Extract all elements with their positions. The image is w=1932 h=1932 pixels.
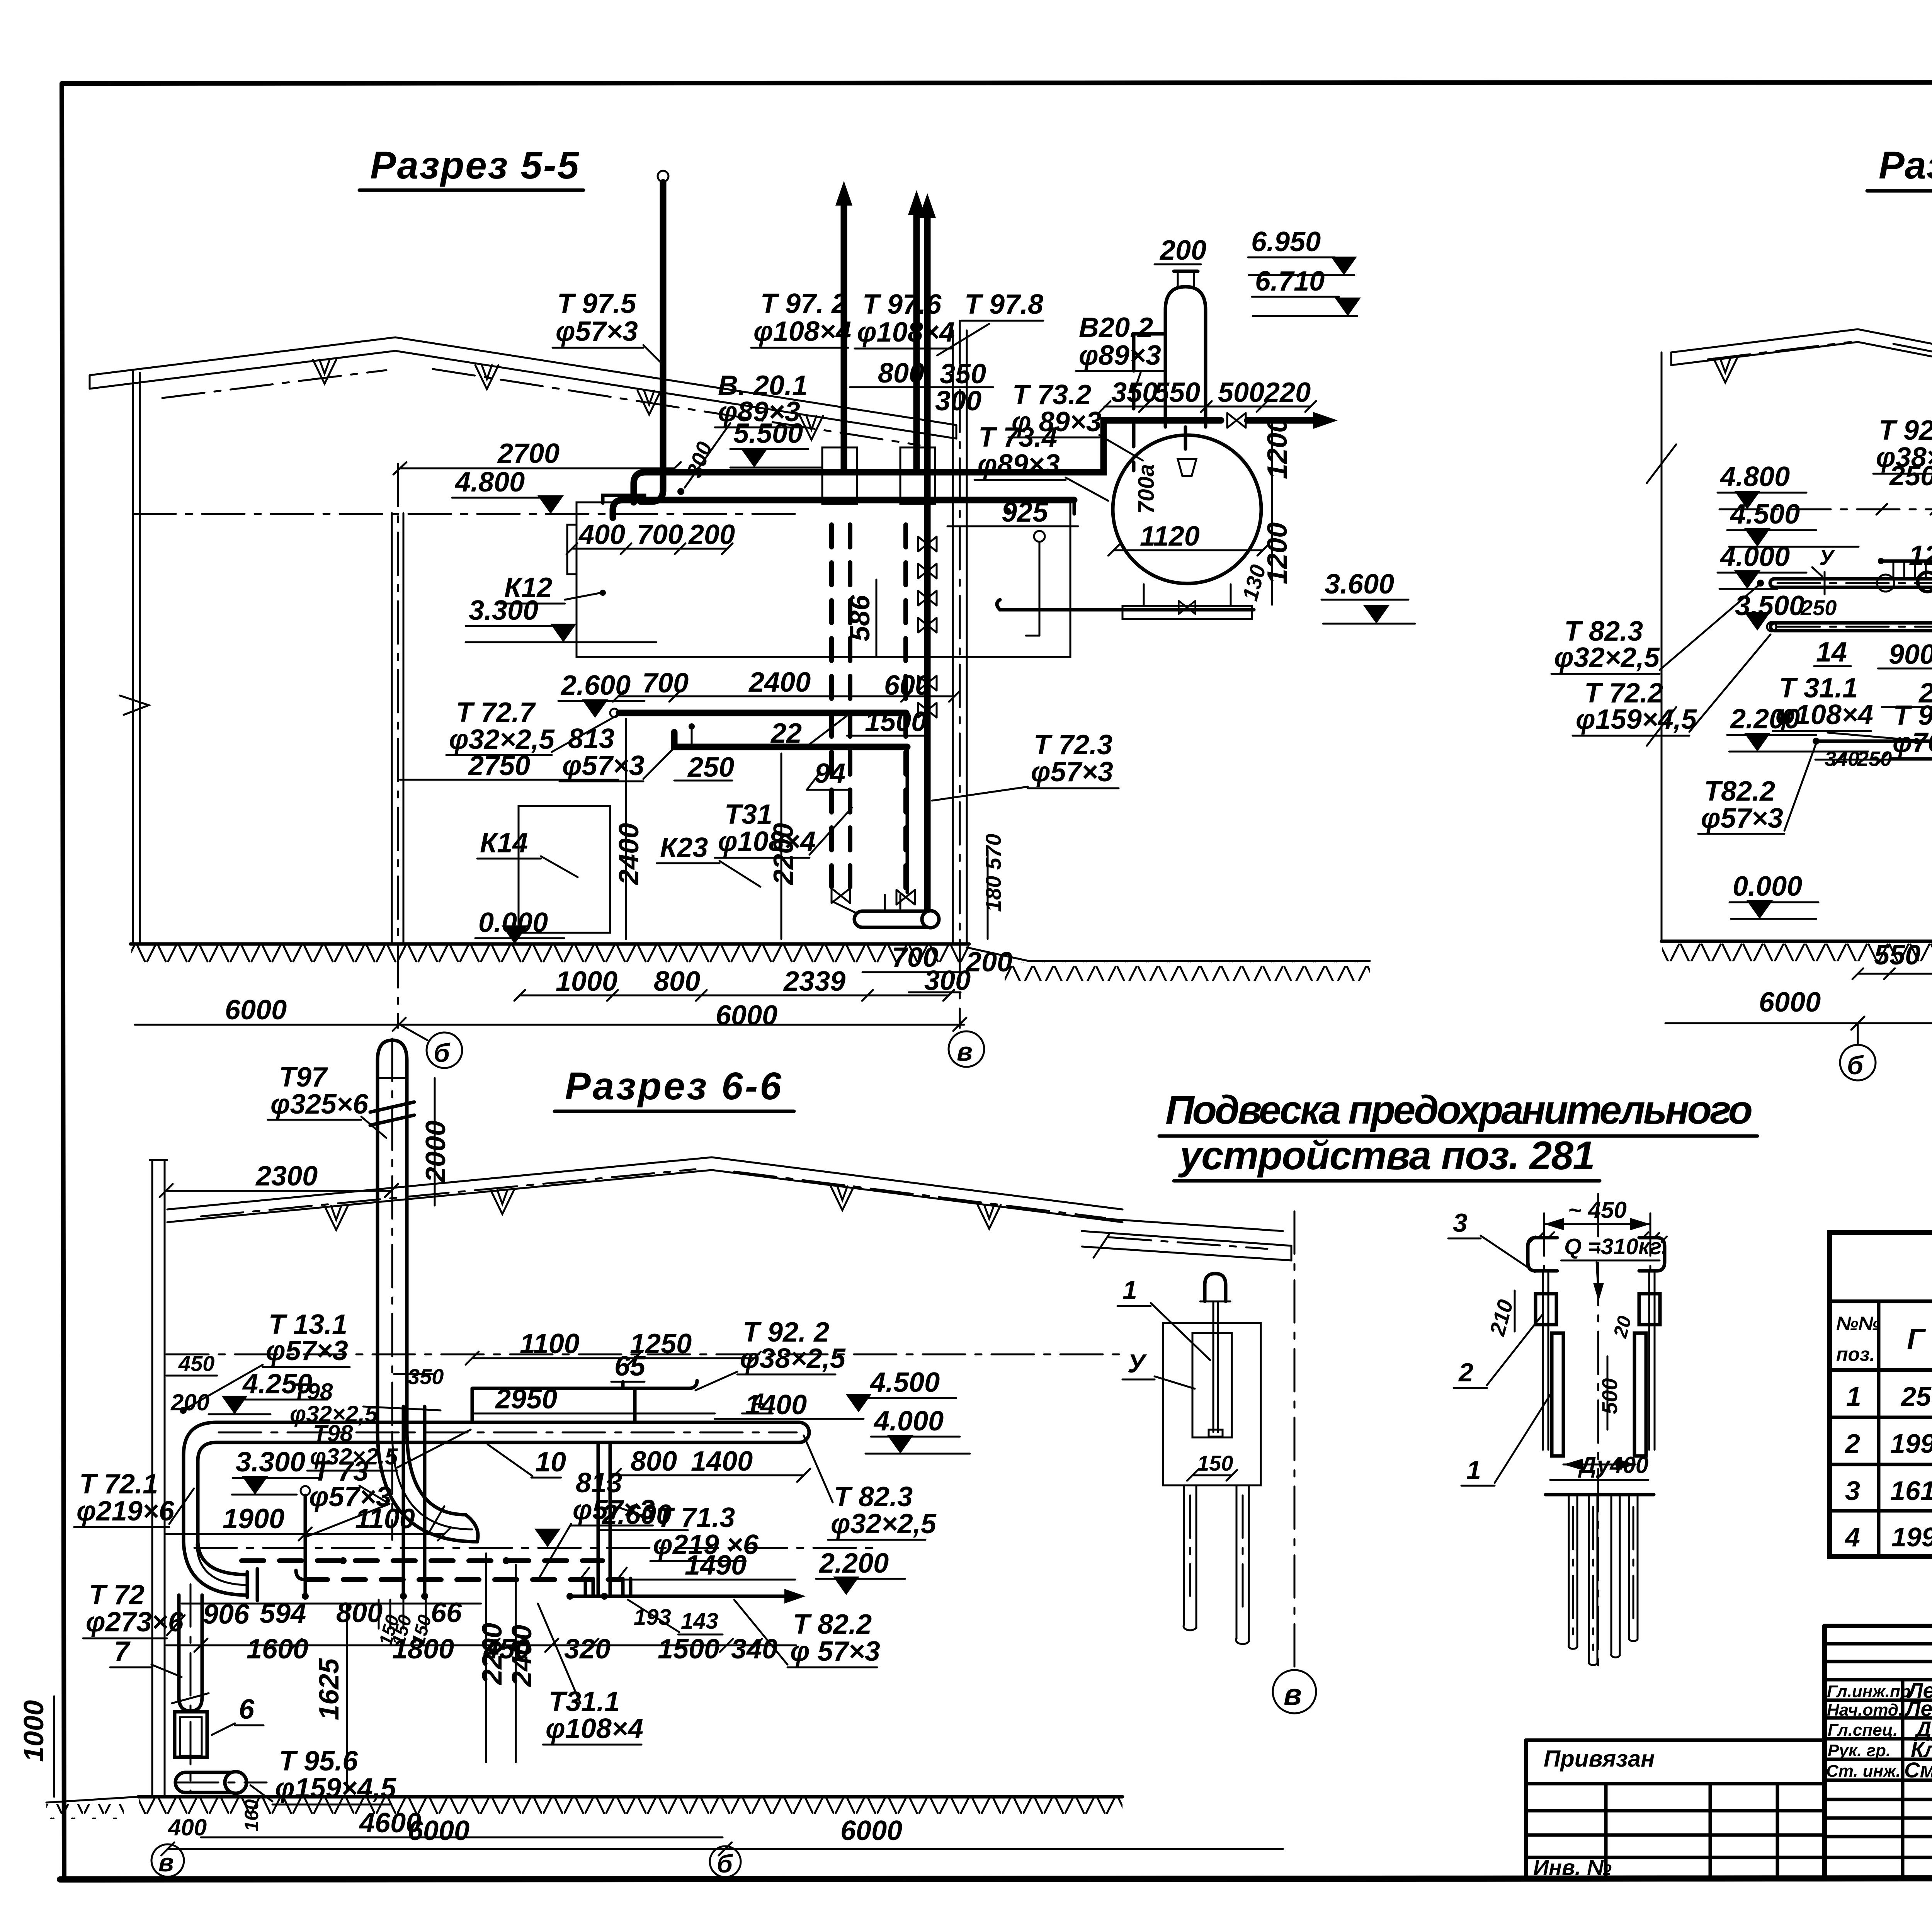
detail title line2 [1174, 1133, 1600, 1181]
svg-text:2339: 2339 [783, 966, 845, 997]
level 6.950 [1248, 226, 1357, 275]
svg-text:1800: 1800 [392, 1634, 454, 1665]
chimney elbow [378, 1430, 478, 1542]
svg-text:Q =310кг.: Q =310кг. [1564, 1234, 1668, 1259]
svg-text:340: 340 [731, 1634, 777, 1665]
svg-text:поз.: поз. [1836, 1344, 1875, 1365]
dims 800 350 300 [850, 358, 993, 417]
dim 2700 [393, 438, 681, 474]
vert dims 2400 2200 [614, 719, 799, 939]
pipe V20.2 [1134, 334, 1165, 471]
svg-text:550: 550 [1874, 940, 1920, 971]
svg-text:3: 3 [1453, 1208, 1468, 1238]
svg-text:300: 300 [935, 386, 981, 417]
level 2.600 s66 [534, 1499, 688, 1547]
level 4.800 [133, 467, 801, 514]
dim 150 detail [1187, 1451, 1237, 1481]
level 4.000 s77 [1718, 541, 1806, 589]
dims near vessel 350 550 500 220 [1100, 377, 1316, 412]
svg-text:Т 73.2: Т 73.2 [1012, 379, 1091, 410]
svg-text:Т 97.8: Т 97.8 [964, 289, 1043, 320]
svg-text:19903-74: 19903-74 [1890, 1429, 1932, 1459]
svg-text:Т98: Т98 [293, 1379, 333, 1405]
dim row 1200 300 10 [1909, 536, 1932, 581]
roof 6-6 [167, 1157, 1122, 1230]
riser T71.3 s66 [598, 1442, 610, 1600]
dim 1500 [847, 706, 929, 737]
svg-text:Т 97.6: Т 97.6 [862, 289, 942, 320]
label T13.1 [180, 1309, 350, 1414]
label T97 [268, 1062, 386, 1138]
svg-text:6.950: 6.950 [1251, 226, 1321, 257]
plates poz1 [1552, 1333, 1646, 1456]
branch V20.1 [677, 423, 730, 495]
vert dim 1625 [314, 1604, 347, 1789]
svg-text:400: 400 [578, 519, 625, 550]
label 10 s66 [488, 1444, 566, 1478]
label 65 s66 [611, 1351, 646, 1388]
svg-text:700а: 700а [1134, 464, 1159, 514]
names [1904, 1678, 1932, 1782]
C bracket right [1639, 1232, 1667, 1271]
label T73 s66 [305, 1456, 391, 1537]
dims row 1600 1800 450 320 1500 340 [166, 1634, 796, 1665]
dim ~450 [1544, 1197, 1650, 1271]
label T97.2 [751, 288, 851, 348]
label 6 [212, 1694, 264, 1735]
center axis right detail [1597, 1194, 1599, 1665]
label T73.4 [975, 422, 1108, 501]
dims 6000 6000 s55 [135, 995, 966, 1031]
label T92.2 s77 [1873, 415, 1932, 560]
dim 2750 [400, 750, 618, 781]
detail axis line [1294, 1211, 1296, 1668]
svg-text:2950: 2950 [495, 1384, 557, 1415]
level 4.000 right s66 [866, 1406, 970, 1454]
svg-text:4.000: 4.000 [1719, 541, 1790, 572]
vert dim 180 570 [981, 834, 1005, 939]
label T31 [715, 799, 852, 858]
svg-text:1200: 1200 [1909, 540, 1932, 571]
axis circle V detail [1273, 1670, 1316, 1713]
level 6.710 [1252, 266, 1361, 316]
svg-text:φ57×3: φ57×3 [556, 316, 638, 347]
svg-text:Гл.спец.: Гл.спец. [1828, 1721, 1898, 1740]
svg-text:4.800: 4.800 [454, 467, 525, 498]
svg-text:У: У [1819, 545, 1835, 570]
level 2.200 s77 [1727, 704, 1868, 752]
svg-text:2400: 2400 [748, 667, 811, 698]
hanger boxes [822, 447, 935, 504]
vert dim 586 [845, 580, 876, 657]
label T72.7 [446, 697, 617, 755]
svg-text:У: У [1128, 1349, 1147, 1378]
svg-text:Подвеска предохранительного: Подвеска предохранительного [1165, 1088, 1753, 1133]
svg-text:700: 700 [637, 519, 683, 550]
svg-text:813: 813 [568, 723, 614, 754]
axis circle V 6-6 [151, 1844, 184, 1877]
dims 400 4600 [168, 1808, 723, 1840]
C bracket left [1528, 1232, 1557, 1271]
svg-text:800: 800 [631, 1446, 677, 1477]
svg-text:б: б [717, 1849, 733, 1878]
dims 6000 6000 s77 [1665, 987, 1932, 1030]
svg-text:Т 97. 2: Т 97. 2 [760, 288, 847, 319]
wall left 6-6 [150, 1160, 167, 1797]
pipe T97.2 [835, 181, 852, 472]
chimney T97 [370, 1039, 414, 1540]
level 4.800 s77 [1718, 461, 1932, 509]
vert dims 1200 1200 130 [1238, 417, 1293, 605]
pipe T97.8 riser [919, 193, 936, 909]
section 7-7 title [1867, 144, 1932, 191]
svg-text:в: в [158, 1848, 174, 1877]
pipe bundle below [1569, 1495, 1638, 1665]
svg-text:800: 800 [878, 358, 924, 389]
svg-text:19903-74: 19903-74 [1891, 1522, 1932, 1552]
vert dims 2200 2400 [477, 1553, 537, 1762]
label 94 [807, 758, 850, 790]
svg-text:Т 72.7: Т 72.7 [456, 697, 536, 728]
dim 3500 250 [1735, 590, 1837, 631]
valves on riser [918, 537, 937, 718]
svg-text:Т31: Т31 [724, 799, 772, 830]
level 4.250 s66 [209, 1369, 328, 1414]
svg-text:Т31.1: Т31.1 [549, 1686, 620, 1717]
level 0.000 [475, 907, 564, 944]
svg-text:φ108×4: φ108×4 [753, 316, 851, 347]
svg-text:2: 2 [1458, 1358, 1473, 1387]
label 3 [1448, 1208, 1535, 1272]
pipe T72.7 [610, 709, 906, 717]
svg-text:φ108×4: φ108×4 [718, 826, 816, 857]
svg-text:200: 200 [688, 519, 735, 550]
svg-text:φ57×3: φ57×3 [266, 1335, 348, 1366]
label V20.1 [715, 370, 808, 427]
svg-text:б: б [1847, 1051, 1864, 1080]
lower pipe s77 [1813, 738, 1932, 839]
svg-text:1200: 1200 [1262, 417, 1293, 479]
axis circle Б 5-5 [400, 1025, 462, 1068]
svg-text:2.200: 2.200 [818, 1548, 889, 1579]
ground 6-6 [46, 1797, 1122, 1819]
spec table grid [1830, 1233, 1932, 1556]
column B axis right 5-5 [953, 321, 967, 1028]
svg-text:2700: 2700 [497, 438, 560, 469]
main pipe T72.1 s77 [1757, 545, 1932, 603]
label 813 [560, 723, 673, 781]
label K14 [477, 828, 578, 877]
label 1 left detail [1117, 1276, 1210, 1360]
detail title line1 [1159, 1088, 1757, 1136]
svg-text:В20.2: В20.2 [1079, 312, 1153, 343]
drain capsule [854, 895, 939, 928]
dim 1400 upper s66 [715, 1389, 864, 1420]
svg-text:900: 900 [1889, 639, 1932, 670]
svg-text:4.500: 4.500 [869, 1367, 940, 1398]
boiler K12 [567, 502, 1070, 657]
svg-text:150: 150 [1197, 1451, 1233, 1475]
pipe T97.6 [908, 190, 925, 472]
label K23 [657, 832, 760, 887]
label T97.5 [553, 288, 662, 363]
label T72.3 s55 [932, 730, 1119, 801]
svg-text:Т 72.1: Т 72.1 [79, 1469, 158, 1500]
label 4 left detail [1122, 1349, 1195, 1389]
dims 800 1400 s66 [608, 1446, 810, 1482]
roof 5-5 [90, 337, 956, 445]
label 7 [110, 1636, 182, 1677]
dim 250 [674, 752, 734, 783]
svg-text:193: 193 [634, 1605, 671, 1630]
svg-text:2150: 2150 [1918, 678, 1932, 709]
svg-text:Привязан: Привязан [1544, 1746, 1655, 1772]
svg-text:220: 220 [1264, 377, 1311, 408]
svg-text:250: 250 [1800, 595, 1837, 620]
svg-text:2000: 2000 [420, 1121, 451, 1183]
capsule T95.6 s66 [175, 1772, 267, 1793]
dims 2150 850 300 [1882, 675, 1932, 709]
table row 1 [1846, 1381, 1932, 1417]
svg-text:Т 72.3: Т 72.3 [1034, 730, 1112, 760]
svg-text:φ57×3: φ57×3 [562, 750, 645, 781]
svg-text:φ108×4: φ108×4 [1776, 699, 1873, 730]
privyazan block [1526, 1740, 1825, 1879]
svg-text:450: 450 [178, 1351, 214, 1376]
vert dim 2000 [420, 1078, 451, 1206]
label T82.2 s66 [734, 1600, 880, 1667]
label 4 mark [742, 1389, 773, 1413]
pipe T97.5 [641, 171, 668, 502]
roof 7-7 [1671, 329, 1932, 449]
level 4.500 right s66 [845, 1367, 956, 1412]
main pipe s66 [184, 1422, 809, 1478]
big elbow T72 s66 [184, 1478, 257, 1600]
level 5.500 [730, 418, 821, 468]
svg-text:813: 813 [576, 1468, 622, 1498]
vessel T98.2 [1165, 271, 1206, 427]
svg-text:6000: 6000 [840, 1815, 902, 1846]
label T97.6 [855, 289, 955, 349]
ground 7-7 [1662, 941, 1932, 961]
svg-text:2750: 2750 [468, 750, 530, 781]
label T31.1 s66 [538, 1604, 643, 1745]
axis circle В 5-5 [949, 1031, 984, 1067]
dim 1490 [607, 1550, 795, 1581]
column Б 5-5 [392, 464, 403, 1028]
pipe bottom right s66 [566, 1568, 806, 1604]
svg-text:800: 800 [336, 1597, 383, 1628]
bottom dims 550 2750 900 1350 450 [1852, 940, 1932, 979]
svg-text:Т 73.4: Т 73.4 [978, 422, 1057, 453]
svg-text:Т 82.2: Т 82.2 [793, 1609, 872, 1640]
thin pipe T98 s66 [472, 1381, 697, 1422]
svg-text:в: в [1284, 1677, 1302, 1711]
dims 6000 6000 s66 [161, 1815, 1283, 1855]
svg-text:К23: К23 [660, 832, 708, 863]
ground 5-5 [131, 944, 1370, 981]
svg-text:2400: 2400 [614, 823, 645, 886]
dims 150 150 150 [375, 1600, 435, 1648]
svg-text:6.710: 6.710 [1255, 266, 1325, 297]
dim 350 s66 [394, 1364, 444, 1389]
level 4.500 s77 [1727, 499, 1859, 547]
svg-text:φ57×3: φ57×3 [573, 1495, 655, 1526]
svg-text:4: 4 [1844, 1522, 1860, 1552]
svg-text:800: 800 [654, 966, 700, 997]
svg-text:Т 97.5: Т 97.5 [557, 288, 636, 319]
level 3.300 [466, 595, 656, 642]
bottom flange [1546, 1480, 1654, 1495]
svg-text:700: 700 [642, 668, 689, 699]
label 22 [767, 715, 848, 749]
dims 1900 1100 s66 [166, 1503, 451, 1541]
dim 210 [1485, 1291, 1517, 1338]
label 1 right detail [1461, 1391, 1553, 1486]
dims 2.600 700 2400 600 row [558, 667, 960, 718]
detail roof fragment [1082, 1217, 1291, 1260]
svg-text:6000: 6000 [716, 1000, 777, 1031]
svg-text:1120: 1120 [1140, 521, 1200, 552]
svg-text:586: 586 [845, 595, 876, 641]
svg-text:500: 500 [1218, 377, 1264, 408]
wall left 5-5 [120, 370, 149, 944]
svg-text:Т 72: Т 72 [89, 1580, 145, 1611]
svg-text:250: 250 [687, 752, 734, 783]
svg-text:3.600: 3.600 [1325, 569, 1394, 600]
dim Du400 [1563, 1452, 1648, 1478]
svg-text:3.500: 3.500 [1735, 590, 1804, 621]
svg-text:Рук. гр.: Рук. гр. [1828, 1741, 1891, 1760]
riser to drain [906, 747, 909, 893]
svg-text:φ159×4,5: φ159×4,5 [1576, 704, 1697, 735]
svg-text:φ57×3: φ57×3 [1031, 757, 1113, 787]
label Q=310kg [1561, 1234, 1668, 1301]
level 0.000 s77 [1730, 871, 1818, 919]
axis circle Б 7-7 [1840, 1025, 1876, 1080]
svg-text:6000: 6000 [408, 1815, 469, 1846]
svg-text:φ108×4: φ108×4 [546, 1713, 643, 1744]
svg-text:200: 200 [170, 1389, 209, 1415]
dims 450 200 s66 [166, 1351, 217, 1415]
svg-text:1: 1 [1122, 1276, 1137, 1305]
svg-text:1100: 1100 [355, 1503, 415, 1534]
section 6-6 title [554, 1065, 794, 1111]
hanger rods right detail [1543, 1273, 1655, 1450]
svg-text:φ325×6: φ325×6 [270, 1089, 369, 1120]
dim 20 [1609, 1313, 1636, 1340]
svg-text:К12: К12 [504, 572, 552, 603]
label 2 [1454, 1315, 1543, 1388]
table row 2 [1844, 1429, 1932, 1464]
svg-text:200: 200 [1159, 235, 1206, 266]
label T91.1 left s77 [1889, 700, 1932, 760]
svg-text:4.500: 4.500 [1730, 499, 1800, 530]
lugs poz2 [1536, 1294, 1660, 1325]
svg-text:0.000: 0.000 [1733, 871, 1802, 902]
svg-text:φ219×6: φ219×6 [77, 1496, 175, 1527]
svg-text:Т 82.3: Т 82.3 [834, 1481, 913, 1512]
svg-text:Т 31.1: Т 31.1 [1779, 673, 1858, 704]
axis circle Б 6-6 [710, 1846, 741, 1878]
top dim row s77 [1876, 458, 1932, 515]
svg-text:Инв. №: Инв. № [1533, 1855, 1612, 1879]
dims 1000 800 2339 [514, 966, 954, 1001]
svg-text:65: 65 [614, 1351, 646, 1382]
dashed pipe upper s66 [241, 1557, 603, 1564]
label T72.1 s66 [74, 1469, 194, 1527]
level line 2.600 s66 [194, 1547, 881, 1549]
label T95.6 s66 [250, 1746, 396, 1804]
svg-text:К14: К14 [480, 828, 528, 859]
thin risers through chimney [400, 1406, 428, 1600]
label T98 mid s66 [307, 1420, 471, 1471]
svg-text:500: 500 [1597, 1378, 1622, 1414]
svg-text:4.800: 4.800 [1719, 461, 1790, 492]
svg-text:устройства поз. 281: устройства поз. 281 [1178, 1133, 1595, 1178]
svg-text:2590-71: 2590-71 [1900, 1381, 1932, 1412]
pipe 813 branch [674, 723, 907, 747]
svg-text:Т 95.6: Т 95.6 [279, 1746, 358, 1777]
label T82.3 s77 [1551, 585, 1759, 674]
thin pipe T92.2 route [1878, 558, 1932, 717]
label T72.2 s77 [1573, 634, 1770, 736]
svg-text:16127-78: 16127-78 [1890, 1476, 1932, 1506]
svg-text:550: 550 [1154, 377, 1200, 408]
svg-text:Т97: Т97 [279, 1062, 328, 1093]
header pipe H1 [603, 412, 1338, 503]
table row 4 [1844, 1522, 1932, 1558]
svg-text:143: 143 [681, 1609, 718, 1634]
svg-text:φ57×3: φ57×3 [1701, 803, 1783, 834]
svg-text:1490: 1490 [685, 1550, 747, 1581]
label T97.8 [937, 289, 1043, 355]
border frame [63, 82, 1932, 83]
svg-text:3: 3 [1845, 1476, 1860, 1506]
label T31.1 s77 [1773, 673, 1916, 740]
lower riser T72 s66 [172, 1584, 209, 1793]
svg-text:φ38×2,5: φ38×2,5 [1876, 442, 1932, 473]
table header texts [1836, 1311, 1932, 1370]
svg-text:Т82.2: Т82.2 [1704, 776, 1775, 807]
svg-text:1500: 1500 [658, 1634, 719, 1665]
svg-text:1: 1 [1466, 1456, 1481, 1485]
dim 2950 [472, 1384, 715, 1415]
svg-text:φ32×2,5: φ32×2,5 [831, 1509, 937, 1539]
guard box [1163, 1323, 1261, 1485]
svg-text:Разрез 6-6: Разрез 6-6 [565, 1065, 782, 1108]
dims row 340 250 1250 1500 1550 200 570 [1815, 746, 1932, 779]
dims 400 700 200 on boiler [566, 519, 735, 554]
dim 2300 [160, 1161, 398, 1197]
header pipe H2 [613, 500, 1074, 518]
dashed risers pair [832, 525, 855, 913]
labels 193 143 [628, 1600, 723, 1634]
label T92.2 s66 [696, 1317, 846, 1390]
svg-text:1100: 1100 [520, 1328, 580, 1359]
svg-text:φ89×3: φ89×3 [1079, 340, 1161, 371]
dim 925 [947, 497, 1078, 528]
level 3.300 s66 [232, 1447, 321, 1495]
svg-text:66: 66 [431, 1597, 462, 1628]
svg-text:4.000: 4.000 [873, 1406, 944, 1437]
level line 4.500 s66 [166, 1354, 1121, 1355]
label K12 [500, 572, 606, 604]
dashed riser single [896, 525, 915, 905]
dims 700 200 300 [862, 942, 1012, 996]
dashed pipe lower s66 [296, 1570, 622, 1580]
dim 300 rot [682, 439, 717, 481]
